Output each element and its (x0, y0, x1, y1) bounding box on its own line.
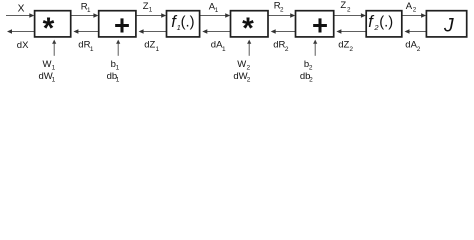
U3 label f1(.) (171, 13, 194, 32)
svg-text:+: + (312, 10, 328, 41)
svg-text:1: 1 (222, 46, 226, 53)
U6 label f2(.) (368, 13, 393, 32)
node R2 (274, 1, 284, 14)
svg-text:*: * (43, 12, 55, 45)
node A1 (209, 1, 219, 13)
svg-text:Z: Z (340, 0, 346, 11)
wire dA1 U4 to U3 (202, 29, 230, 33)
svg-text:(.): (.) (181, 14, 195, 30)
svg-text:J: J (443, 15, 454, 36)
wire b1 into U2 (116, 40, 120, 56)
svg-text:1: 1 (52, 77, 56, 84)
wire dX out of U1 (7, 29, 35, 33)
svg-text:1: 1 (87, 7, 91, 14)
node dX (17, 40, 29, 51)
block U1 multiplier (35, 11, 71, 37)
wire dZ1 U3 to U2 (139, 29, 167, 33)
node X (18, 4, 25, 15)
label b2 (304, 59, 313, 72)
node dR2 (273, 40, 289, 54)
svg-text:dZ: dZ (144, 40, 155, 51)
wire dA2 U7 to U6 (405, 29, 427, 33)
block U5 adder (296, 11, 334, 37)
svg-text:2: 2 (347, 6, 351, 13)
svg-text:2: 2 (285, 46, 289, 53)
svg-text:1: 1 (116, 77, 120, 84)
svg-text:1: 1 (90, 46, 94, 53)
wire b2 into U5 (313, 40, 317, 56)
wire Z1 U2 to U3 (136, 13, 166, 17)
node dZ2 (338, 40, 353, 54)
svg-text:dR: dR (273, 40, 285, 51)
svg-text:X: X (18, 4, 25, 15)
svg-text:dA: dA (405, 40, 417, 51)
svg-text:dR: dR (78, 40, 90, 51)
svg-text:2: 2 (417, 46, 421, 53)
block U2 adder (99, 11, 136, 37)
block U6 transfer f2 (366, 11, 402, 37)
svg-text:1: 1 (156, 46, 160, 53)
block U4 multiplier (231, 11, 269, 37)
wire W2 into U4 (247, 40, 251, 56)
svg-text:(.): (.) (379, 14, 393, 30)
wire R2 U4 to U5 (268, 13, 295, 17)
block U3 transfer f1 (167, 11, 200, 37)
wire dR2 U5 to U4 (271, 29, 296, 33)
wire Z2 U5 to U6 (334, 13, 366, 17)
node dA1 (211, 40, 226, 54)
svg-text:1: 1 (149, 7, 153, 14)
wire A2 U6 to U7 (402, 13, 426, 17)
svg-text:2: 2 (247, 77, 251, 84)
node dR1 (78, 40, 94, 54)
svg-text:*: * (242, 12, 254, 45)
label db1 (107, 71, 120, 84)
label b1 (111, 59, 120, 72)
wire R1 U1 to U2 (71, 13, 99, 17)
label db2 (300, 71, 313, 84)
label dW1 (39, 71, 56, 84)
wire A1 U3 to U4 (200, 13, 231, 17)
node Z2 (340, 0, 351, 13)
svg-text:2: 2 (413, 7, 417, 14)
svg-text:A: A (406, 1, 413, 12)
label W2 (237, 59, 250, 72)
svg-text:+: + (114, 10, 130, 41)
svg-text:2: 2 (349, 46, 353, 53)
node dZ1 (144, 40, 159, 54)
svg-text:dZ: dZ (338, 40, 349, 51)
node A2 (406, 1, 417, 14)
block U7 cost J (426, 11, 466, 37)
svg-text:dW: dW (233, 71, 247, 82)
svg-text:W: W (43, 59, 52, 70)
node R1 (81, 1, 91, 13)
wire dR1 U2 to U1 (73, 29, 98, 33)
svg-text:2: 2 (280, 6, 284, 13)
label W1 (43, 59, 56, 72)
label dW2 (233, 71, 250, 84)
node dA2 (405, 40, 421, 54)
svg-text:1: 1 (215, 7, 219, 14)
svg-text:W: W (237, 59, 246, 70)
wire W1 into U1 (52, 40, 56, 56)
svg-text:2: 2 (309, 77, 313, 84)
svg-text:dX: dX (17, 40, 29, 51)
wire dZ2 U6 to U5 (336, 29, 366, 33)
wire X into U1 (6, 13, 34, 17)
node Z1 (143, 1, 153, 14)
